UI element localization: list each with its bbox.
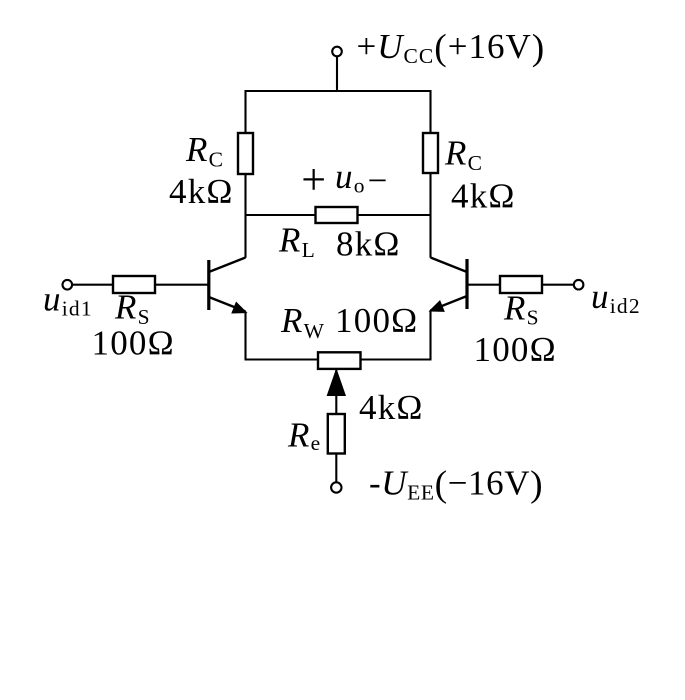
svg-text:100Ω: 100Ω: [474, 330, 557, 369]
wire top bus: [246, 90, 431, 92]
wire Re stem: [335, 454, 337, 483]
wire T2 base to RS right: [469, 284, 501, 286]
wire left branch upper: [244, 90, 246, 133]
wire T1 emitter vertical: [244, 312, 246, 360]
resistor RC right: [423, 133, 438, 173]
wire RL left segment: [246, 214, 316, 216]
transistor T2 base bar: [465, 259, 468, 309]
node uid1 input terminal: [63, 280, 73, 290]
wire RS right to uid2: [542, 284, 574, 286]
resistor RL: [316, 207, 358, 223]
wire left branch middle: [244, 174, 246, 258]
potentiometer RW body: [318, 352, 361, 369]
node uid2 input terminal: [574, 280, 584, 290]
wire uid1 to RS left: [72, 284, 113, 286]
svg-text:RW 100Ω: RW 100Ω: [280, 301, 418, 343]
svg-text:Re: Re: [287, 416, 321, 456]
wire right branch upper: [429, 90, 431, 133]
wire T2 emitter vertical: [429, 311, 431, 360]
wire right branch middle: [429, 173, 431, 258]
svg-text:uo−: uo−: [335, 157, 389, 200]
wire RL right segment: [358, 214, 431, 216]
transistor T1 collector lead: [209, 258, 246, 273]
transistor T1 emitter lead: [209, 297, 246, 312]
transistor T1 base bar: [207, 260, 210, 310]
svg-text:+UCC(+16V): +UCC(+16V): [357, 27, 546, 69]
wire RS left to T1 base: [155, 284, 208, 286]
svg-text:RC: RC: [185, 130, 224, 172]
transistor T2 emitter lead: [431, 296, 468, 311]
svg-text:8kΩ: 8kΩ: [336, 225, 401, 264]
svg-text:4kΩ: 4kΩ: [169, 172, 234, 211]
transistor T1 emitter arrow: [232, 303, 246, 313]
wire RW wiper stem: [335, 369, 337, 414]
svg-text:uid2: uid2: [591, 277, 641, 318]
svg-text:RL: RL: [278, 221, 316, 263]
svg-text:RC: RC: [444, 134, 483, 176]
resistor RC left: [238, 133, 253, 174]
wire bottom right segment: [361, 358, 432, 360]
node +UCC supply terminal: [332, 47, 342, 57]
resistor Re: [328, 414, 345, 454]
wire bottom left segment: [245, 358, 318, 360]
svg-text:+: +: [301, 155, 327, 204]
resistor RS left: [113, 276, 155, 293]
node -UEE supply terminal: [331, 482, 341, 492]
svg-text:4kΩ: 4kΩ: [359, 388, 424, 427]
svg-text:4kΩ: 4kΩ: [451, 177, 516, 216]
resistor RS right: [500, 276, 542, 293]
potentiometer RW wiper arrow: [327, 370, 345, 396]
wire UCC stem: [336, 56, 338, 91]
transistor T2 collector lead: [431, 258, 468, 273]
svg-text:RS: RS: [503, 289, 540, 330]
transistor T2 emitter arrow: [430, 301, 444, 311]
svg-text:-UEE(−16V): -UEE(−16V): [369, 464, 543, 506]
svg-text:100Ω: 100Ω: [92, 324, 175, 363]
